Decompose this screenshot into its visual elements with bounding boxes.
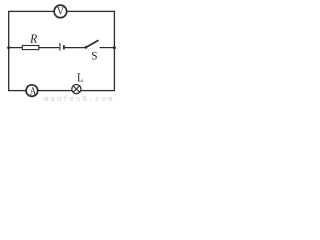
svg-text:manfen5.com: manfen5.com <box>44 96 114 103</box>
